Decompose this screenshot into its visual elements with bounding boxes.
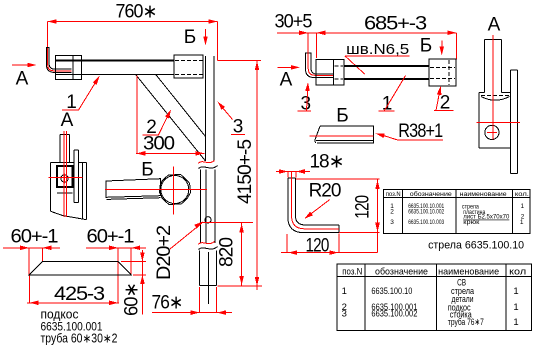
svg-text:поз.N: поз.N: [342, 266, 362, 277]
hook (pos 3): [46, 48, 72, 73]
svg-text:2: 2: [390, 209, 394, 216]
svg-text:1: 1: [513, 302, 518, 313]
BENT PLATE DETAIL BOTTOM: [276, 152, 380, 257]
hook centerline (detail): [308, 33, 333, 76]
svg-text:труба 76∗7: труба 76∗7: [448, 317, 484, 328]
svg-text:1: 1: [513, 286, 518, 297]
sleeve right on post: [174, 55, 203, 78]
svg-text:6635.100.002: 6635.100.002: [371, 309, 417, 320]
A view centerlines: [48, 131, 82, 217]
SPEC TABLE SMALL: [384, 189, 531, 251]
svg-text:760∗: 760∗: [116, 2, 157, 23]
boom bottom edge: [55, 73, 174, 75]
svg-text:30+5: 30+5: [275, 12, 312, 33]
boom top edge: [55, 59, 174, 61]
svg-text:1: 1: [513, 317, 518, 328]
B view circle: [161, 176, 189, 204]
svg-text:R20: R20: [309, 181, 341, 202]
section arrow A: [12, 64, 34, 66]
svg-text:кол.: кол.: [515, 191, 529, 198]
svg-text:обозначение: обозначение: [375, 266, 428, 277]
VIEW A (left drawing): [48, 110, 86, 220]
svg-text:120: 120: [352, 195, 373, 218]
STRUT BOTTOM LEFT: [3, 227, 146, 346]
brace diagonal 2: [136, 74, 206, 161]
A view flat bar: [74, 150, 79, 203]
svg-text:D20+2: D20+2: [154, 226, 175, 280]
post middle section: [200, 170, 215, 244]
svg-text:6635.100.10: 6635.100.10: [371, 286, 412, 297]
svg-text:поз.N: поз.N: [386, 191, 401, 198]
svg-text:1: 1: [520, 219, 524, 226]
A hook hidden line: [481, 95, 509, 97]
svg-text:труба 60∗30∗2: труба 60∗30∗2: [41, 332, 118, 346]
svg-text:60+-1: 60+-1: [87, 227, 134, 248]
A hook centerlines: [476, 35, 520, 140]
svg-text:наименование: наименование: [460, 191, 507, 198]
svg-text:А: А: [16, 69, 29, 90]
svg-text:А: А: [488, 15, 501, 36]
dim 760* right extension: [216, 22, 218, 61]
svg-text:6635.100.10.003: 6635.100.10.003: [408, 219, 444, 226]
A view tube: [60, 135, 69, 163]
bent plate centerline: [292, 172, 339, 229]
dim 4150+-5: [217, 60, 261, 290]
svg-text:R38+1: R38+1: [398, 121, 442, 142]
svg-text:1: 1: [342, 286, 347, 297]
svg-text:820: 820: [217, 238, 238, 267]
strut trapezoid: [29, 262, 131, 275]
svg-text:425-3: 425-3: [54, 284, 104, 305]
svg-text:крюк: крюк: [463, 219, 479, 226]
svg-text:76∗: 76∗: [152, 293, 183, 314]
svg-text:А: А: [61, 110, 74, 131]
svg-text:Б: Б: [420, 36, 432, 57]
svg-text:1: 1: [520, 203, 524, 210]
svg-text:наименование: наименование: [438, 266, 499, 277]
B plate centerline: [310, 135, 374, 137]
bent plate: [288, 178, 339, 233]
svg-text:стрела 6635.100.10: стрела 6635.100.10: [428, 240, 524, 252]
VIEW B PLATE (detail): [310, 106, 444, 143]
MAIN VIEW LEFT: [12, 2, 262, 315]
VIEW A HOOK (detail): [476, 15, 520, 174]
svg-text:3: 3: [390, 219, 394, 226]
B view bar: [106, 179, 161, 200]
A hook tube: [485, 40, 502, 93]
svg-text:685+-3: 685+-3: [364, 14, 426, 35]
dim line 30+5 / 685+-3: [277, 33, 456, 60]
svg-text:Б: Б: [184, 27, 196, 48]
svg-text:60∗: 60∗: [122, 283, 143, 316]
svg-text:обозначение: обозначение: [410, 190, 452, 198]
post bottom pipe: [200, 251, 217, 305]
A hook hole: [485, 125, 499, 139]
svg-text:Б: Б: [336, 106, 348, 127]
post upper tube: [206, 56, 215, 161]
A hook flat bar: [510, 70, 517, 173]
svg-text:3: 3: [342, 309, 347, 320]
svg-text:А: А: [280, 70, 293, 91]
svg-text:60+-1: 60+-1: [11, 227, 58, 248]
post break 2: [199, 247, 218, 250]
dim 760* line: [48, 21, 218, 23]
dim 820: [201, 223, 262, 287]
svg-text:18∗: 18∗: [309, 152, 343, 173]
post break 1: [199, 166, 218, 169]
svg-text:кол: кол: [509, 266, 526, 277]
hole D20: [205, 217, 211, 223]
hook centerline: [48, 22, 72, 71]
svg-text:120: 120: [306, 236, 329, 257]
A hook inner arc: [481, 97, 510, 101]
A hook body: [479, 93, 510, 148]
B view octagon: [160, 175, 191, 205]
BOOM DETAIL TOP RIGHT: [275, 12, 457, 115]
A view body: [50, 162, 86, 219]
sleeve right (detail): [429, 59, 456, 86]
VIEW B (left drawing): [105, 160, 207, 215]
sleeve left: [55, 55, 81, 79]
B view centerlines: [105, 167, 207, 215]
A view slot: [57, 166, 73, 187]
B plate: [315, 126, 374, 143]
svg-text:Б: Б: [141, 160, 153, 181]
svg-text:300: 300: [143, 134, 174, 155]
boom tube (detail): [344, 66, 429, 79]
SPEC TABLE BIG: [337, 264, 532, 331]
svg-text:6635.100.10.002: 6635.100.10.002: [408, 209, 444, 216]
hook 3 (detail): [305, 53, 333, 78]
section arrow A (detail): [278, 66, 298, 68]
svg-text:4150+-5: 4150+-5: [235, 140, 256, 204]
A view hole: [61, 175, 68, 182]
sleeve left (detail): [316, 60, 344, 85]
